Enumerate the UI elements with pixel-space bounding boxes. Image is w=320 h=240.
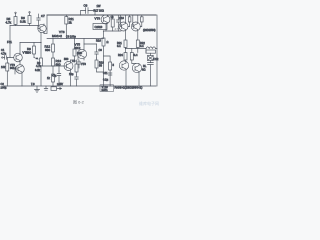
wire right edge vertical: [156, 15, 158, 86]
resistor R25: [130, 53, 133, 61]
transistor VT5: [77, 49, 86, 58]
svg-text:0.4: 0.4: [140, 44, 144, 48]
resistor R21: [124, 40, 127, 48]
wire rail corner drop: [46, 15, 48, 33]
transistor VT2: [14, 53, 23, 62]
svg-text:C2010: C2010: [95, 25, 103, 29]
svg-text:680: 680: [26, 51, 31, 55]
wire x103 vertical: [103, 31, 105, 86]
svg-text:10µ: 10µ: [69, 72, 74, 76]
resistor R1: [6, 63, 9, 71]
wire feedback arrow: [34, 58, 38, 60]
svg-text:4.7k: 4.7k: [36, 64, 42, 68]
wire VT4 base row: [43, 66, 67, 71]
svg-text:MJ11: MJ11: [102, 88, 109, 92]
svg-text:C1: C1: [1, 48, 5, 52]
transistor VT4: [64, 62, 73, 71]
svg-text:MG1×2: MG1×2: [52, 34, 62, 38]
svg-text:维库电子网: 维库电子网: [139, 100, 159, 106]
resistor R8: [33, 46, 36, 54]
input terminal and capacitor C1: [2, 57, 3, 58]
svg-text:0.1µ: 0.1µ: [103, 78, 109, 82]
capacitor C3: [77, 60, 81, 68]
wire output node: [126, 48, 147, 49]
svg-text:680: 680: [45, 48, 50, 52]
wire VT4 collector node: [71, 59, 75, 61]
wire left vertical drop: [9, 26, 11, 58]
resistor R13: [52, 58, 55, 66]
resistor R6: [28, 16, 31, 24]
junction dots: [40, 14, 126, 49]
svg-text:VT8: VT8: [81, 62, 86, 66]
resistor Rb: [141, 17, 144, 22]
resistor R7: [40, 58, 43, 66]
svg-text:C11: C11: [103, 71, 108, 75]
bottom device box: [100, 85, 114, 92]
svg-text:C8: C8: [84, 4, 88, 8]
svg-text:0.4: 0.4: [134, 53, 138, 57]
svg-text:C9: C9: [99, 48, 103, 52]
svg-text:Ω: Ω: [107, 40, 109, 44]
svg-text:R24: R24: [118, 53, 123, 57]
transistor VT3: [16, 65, 25, 74]
transistor VT9: [101, 15, 110, 24]
svg-text:RL: RL: [143, 64, 147, 68]
svg-text:10k: 10k: [1, 65, 6, 69]
wire top supply rail: [47, 14, 156, 16]
svg-text:C10: C10: [119, 16, 124, 20]
capacitor C12: [148, 63, 154, 87]
capacitor C5: [75, 75, 79, 86]
svg-text:9012: 9012: [75, 46, 81, 50]
svg-text:C7: C7: [41, 14, 45, 18]
wire mid horizontal: [47, 38, 104, 40]
wire long vertical x41: [40, 33, 42, 87]
svg-text:VT9: VT9: [95, 17, 101, 21]
resistor Rd: [146, 50, 156, 53]
wire VT1 to mid: [44, 33, 47, 35]
capacitor C8: [81, 11, 96, 16]
capacitor C10: [117, 15, 121, 31]
wire VT9 emitter row: [104, 30, 122, 32]
svg-text:R17 10Ω: R17 10Ω: [94, 9, 104, 13]
svg-text:4.7µ: 4.7µ: [1, 52, 7, 56]
svg-text:C2: C2: [1, 82, 5, 86]
box C2010: [93, 24, 107, 30]
svg-text:C3: C3: [72, 59, 76, 63]
capacitor C7: [37, 14, 41, 26]
transistor VT1: [38, 24, 46, 32]
wire top-left horizontal: [10, 25, 38, 27]
wire VT2 collector row: [20, 42, 41, 44]
resistor R11: [65, 17, 68, 25]
ground: [35, 86, 40, 92]
resistor R23: [109, 62, 112, 70]
svg-text:1W: 1W: [97, 4, 101, 8]
lower output transistor VT13: [132, 63, 141, 72]
resistor R20: [73, 49, 76, 56]
resistor Ra: [128, 17, 131, 22]
svg-text:±45V: ±45V: [57, 82, 63, 86]
resistor R5: [14, 17, 17, 25]
svg-text:4.7k: 4.7k: [6, 21, 12, 25]
fuse box: [148, 56, 154, 61]
svg-text:C12: C12: [154, 57, 159, 61]
resistor R19: [95, 60, 98, 68]
svg-text:F11: F11: [7, 40, 12, 44]
capacitor C4: [57, 71, 61, 86]
output transistor VT11: [131, 22, 140, 31]
wire bottom rail: [4, 85, 156, 87]
svg-text:560: 560: [64, 57, 69, 61]
inductor L1: [146, 47, 156, 49]
resistor R12: [52, 44, 55, 52]
output transistor VT10: [119, 22, 128, 31]
svg-text:2k: 2k: [69, 21, 73, 25]
svg-text:7.0: 7.0: [31, 82, 35, 86]
svg-text:9014: 9014: [10, 66, 16, 70]
svg-text:(2SD2560): (2SD2560): [143, 28, 156, 32]
svg-text:8Ω: 8Ω: [142, 68, 145, 72]
svg-text:C6 100p: C6 100p: [66, 35, 76, 39]
resistor R14 column: [75, 64, 78, 72]
svg-text:100µ: 100µ: [1, 86, 7, 90]
svg-text:PA03×2(2SD2560×2): PA03×2(2SD2560×2): [115, 86, 143, 90]
resistor R24: [124, 53, 127, 61]
svg-text:3.3k: 3.3k: [20, 20, 26, 24]
resistor R16: [102, 38, 105, 46]
capacitor C9: [95, 44, 99, 58]
capacitor C11 labels: [108, 73, 112, 75]
power terminal group: [44, 86, 48, 90]
wire VT5 collector to mid: [84, 39, 97, 45]
svg-text:47µ: 47µ: [52, 74, 57, 78]
lower output transistor VT12: [119, 61, 128, 70]
background: [0, 0, 160, 110]
resistor R18: [111, 19, 114, 27]
resistor R22: [136, 40, 139, 48]
resistor R15: [52, 74, 55, 82]
svg-text:8.2k: 8.2k: [35, 68, 41, 72]
svg-text:R16: R16: [96, 39, 101, 43]
svg-text:图 6-2: 图 6-2: [73, 99, 85, 105]
svg-text:0.4: 0.4: [117, 44, 121, 48]
